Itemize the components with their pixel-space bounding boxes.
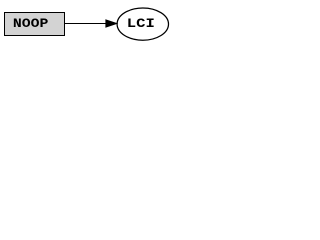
edge NOOP->LCI (wire) [65,20,117,27]
svg-text:LCI: LCI [127,16,155,31]
node LCI (ellipse) [117,8,168,40]
background [0,0,173,48]
svg-text:NOOP: NOOP [13,16,49,31]
node NOOP (box) [5,13,65,36]
